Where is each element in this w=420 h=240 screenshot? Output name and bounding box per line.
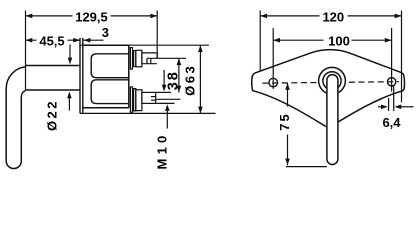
svg-text:45,5: 45,5	[39, 33, 64, 48]
svg-text:129,5: 129,5	[75, 9, 108, 24]
svg-text:100: 100	[328, 33, 350, 48]
svg-text:75: 75	[277, 112, 292, 130]
svg-text:6,4: 6,4	[382, 115, 401, 130]
svg-text:38: 38	[166, 70, 182, 90]
svg-text:3: 3	[102, 25, 109, 40]
svg-text:120: 120	[322, 9, 344, 24]
svg-text:Ø63: Ø63	[183, 64, 198, 96]
svg-text:Ø22: Ø22	[45, 99, 60, 131]
svg-text:M10: M10	[154, 132, 169, 170]
